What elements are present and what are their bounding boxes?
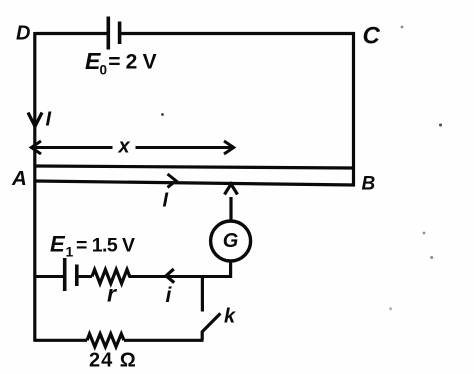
wire right (C down to B) (352, 32, 355, 186)
potentiometer wire AB bottom line (35, 181, 355, 185)
svg-text:i: i (166, 284, 173, 307)
wire top (D to C) (35, 32, 355, 35)
wire left (D down through A to bottom) (33, 32, 36, 342)
svg-text:24 Ω: 24 Ω (89, 350, 137, 372)
svg-text:r: r (107, 281, 117, 307)
svg-text:A: A (11, 167, 27, 190)
svg-text:G: G (223, 230, 239, 252)
label E0 = 2 V (85, 48, 157, 78)
potentiometer wire AB top line (35, 166, 353, 168)
svg-text:B: B (362, 174, 376, 195)
svg-text:I: I (163, 190, 169, 212)
jockey arrow to wire AB (229, 197, 232, 220)
wire bottom (35, 339, 204, 342)
svg-text:0: 0 (100, 63, 108, 78)
battery E0 (107, 17, 111, 50)
svg-text:1: 1 (66, 244, 74, 260)
wire E1 branch (35, 275, 232, 278)
resistor r (92, 270, 130, 284)
svg-text:I: I (46, 109, 52, 131)
wire G to branch (229, 261, 232, 278)
current arrow I on wire AB (168, 174, 177, 187)
current arrow i on E1 branch (166, 269, 174, 283)
resistor 24 ohm (87, 334, 124, 347)
svg-text:x: x (118, 136, 131, 158)
svg-text:C: C (363, 23, 381, 50)
svg-text:= 2 V: = 2 V (108, 51, 156, 74)
current arrow I on left wire (28, 113, 42, 127)
svg-text:= 1.5 V: = 1.5 V (76, 235, 135, 257)
galvanometer G (211, 221, 251, 261)
length arrow x (double headed) (32, 146, 234, 149)
svg-text:k: k (224, 306, 236, 328)
svg-text:D: D (16, 23, 30, 45)
key k (switch) (201, 277, 204, 312)
svg-text:E: E (50, 232, 66, 257)
scan speck (161, 26, 442, 311)
battery E1 (63, 258, 67, 291)
label E1 = 1.5 V (50, 232, 135, 260)
